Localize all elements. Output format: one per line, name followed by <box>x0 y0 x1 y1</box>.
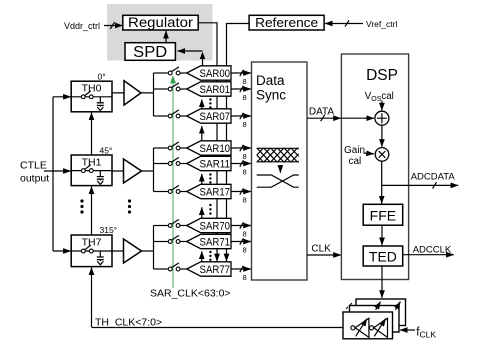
svg-text:SAR_CLK<63:0>: SAR_CLK<63:0> <box>150 288 231 300</box>
svg-text:DATA: DATA <box>309 106 335 117</box>
svg-text:8: 8 <box>243 77 247 86</box>
svg-text:SAR01: SAR01 <box>200 84 231 96</box>
svg-text:FFE: FFE <box>370 207 396 223</box>
svg-text:8: 8 <box>243 93 247 102</box>
svg-text:8: 8 <box>243 168 247 177</box>
svg-text:8: 8 <box>243 230 247 239</box>
svg-text:fCLK: fCLK <box>416 327 436 340</box>
svg-text:cal: cal <box>349 156 362 167</box>
svg-text:DSP: DSP <box>366 67 398 84</box>
svg-text:Data: Data <box>256 73 285 88</box>
svg-text:SAR77: SAR77 <box>200 264 231 276</box>
svg-text:45°: 45° <box>100 145 113 155</box>
svg-text:315°: 315° <box>100 225 118 235</box>
svg-text:SPD: SPD <box>133 44 167 61</box>
svg-text:Sync: Sync <box>256 88 286 103</box>
svg-text:output: output <box>20 173 49 185</box>
svg-text:0°: 0° <box>98 72 106 82</box>
svg-text:CTLE: CTLE <box>20 160 47 172</box>
svg-text:8: 8 <box>243 246 247 255</box>
svg-text:ADCDATA: ADCDATA <box>411 171 456 182</box>
svg-text:8: 8 <box>243 273 247 282</box>
svg-text:SAR11: SAR11 <box>200 159 231 171</box>
svg-text:SAR10: SAR10 <box>200 143 231 155</box>
svg-text:TH_CLK<7:0>: TH_CLK<7:0> <box>95 316 162 328</box>
svg-text:TH0: TH0 <box>82 83 102 95</box>
svg-text:8: 8 <box>243 196 247 205</box>
svg-text:SAR17: SAR17 <box>200 187 231 199</box>
svg-text:Regulator: Regulator <box>128 14 193 30</box>
svg-text:SAR00: SAR00 <box>200 68 231 80</box>
svg-text:TH1: TH1 <box>82 156 102 168</box>
svg-text:Vref_ctrl: Vref_ctrl <box>366 19 397 29</box>
svg-text:TH7: TH7 <box>82 237 102 249</box>
svg-text:Gain: Gain <box>344 145 365 156</box>
svg-text:CLK: CLK <box>311 243 331 254</box>
svg-text:Reference: Reference <box>255 16 318 30</box>
svg-text:Vddr_ctrl: Vddr_ctrl <box>64 21 100 31</box>
svg-text:TED: TED <box>369 249 397 265</box>
svg-text:8: 8 <box>243 152 247 161</box>
svg-text:SAR07: SAR07 <box>200 111 231 123</box>
svg-text:SAR70: SAR70 <box>200 221 231 233</box>
svg-text:SAR71: SAR71 <box>200 237 231 249</box>
svg-text:ADCCLK: ADCCLK <box>413 244 452 255</box>
svg-text:8: 8 <box>243 120 247 129</box>
